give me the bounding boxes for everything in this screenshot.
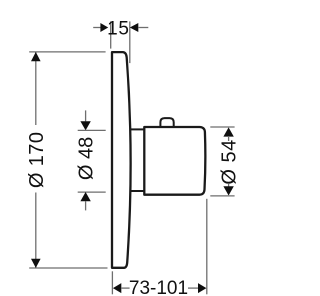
handle knob (side view, Ø54): [144, 127, 205, 195]
dim 15: right extension line: [129, 21, 131, 63]
svg-text:Ø 54: Ø 54: [219, 139, 241, 184]
dim Ø48: dimension line upper segment: [85, 110, 87, 121]
knob top button nub: [160, 118, 173, 128]
dim Ø170: top extension line: [29, 51, 105, 53]
dim 73-101: left arrow (points left): [113, 283, 121, 293]
svg-text:Ø 48: Ø 48: [76, 137, 98, 180]
escutcheon plate (side view, Ø170): [112, 52, 131, 268]
svg-text:Ø 170: Ø 170: [26, 132, 48, 188]
dim 73-101: left tail wire: [121, 287, 130, 289]
dim 73-101: left extension line: [111, 271, 113, 294]
dim Ø54: top extension line: [210, 126, 234, 128]
dim 73-101: right arrow (points right): [198, 283, 206, 293]
dim 73-101: right extension line: [206, 199, 208, 294]
dim 15: left arrow (points right): [100, 23, 108, 32]
dim 73-101: right tail wire: [188, 287, 198, 289]
dim Ø170: dimension line lower segment: [35, 193, 37, 268]
dim Ø170: up arrow: [31, 52, 41, 61]
dim Ø54: dimension line lower segment: [228, 184, 230, 187]
sleeve stem bottom edge: [130, 190, 144, 192]
dim Ø54: bottom extension line: [210, 195, 234, 197]
dim Ø54: down arrow: [223, 186, 233, 195]
sleeve stem top edge: [130, 128, 145, 130]
dim Ø48: bottom extension line: [78, 191, 106, 193]
dim Ø170: dimension line upper segment: [35, 53, 37, 126]
dim 15: left tail wire: [93, 27, 101, 29]
dim Ø48: down arrow: [80, 121, 90, 130]
dim Ø54: dimension line upper segment: [228, 136, 230, 141]
dim Ø170: bottom extension line: [29, 267, 107, 269]
dim Ø48: up arrow: [80, 192, 90, 201]
dim 15: right tail wire: [138, 27, 148, 29]
svg-text:15: 15: [107, 19, 130, 40]
dim Ø54: up arrow: [223, 127, 233, 136]
svg-text:73-101: 73-101: [129, 278, 188, 296]
dim 15: right arrow (points left): [130, 23, 139, 32]
dim Ø170: down arrow: [31, 259, 41, 268]
dim Ø48: top extension line: [78, 129, 106, 131]
dim Ø48: dimension line lower segment: [85, 201, 87, 210]
dim 15: left extension line: [110, 21, 112, 48]
